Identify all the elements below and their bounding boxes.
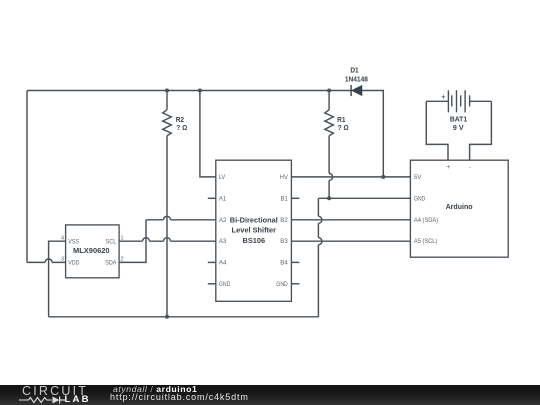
svg-text:D1: D1 xyxy=(350,66,358,74)
wire VDD horizontal with hop over VSS drop xyxy=(27,259,66,263)
logo LAB schematic line xyxy=(0,395,95,405)
wire B3 to A5 SCL xyxy=(291,240,410,242)
svg-text:MLX90620: MLX90620 xyxy=(73,246,110,255)
resistor R1 xyxy=(325,91,334,199)
label Arduino pins xyxy=(414,175,438,245)
node junction R2 top xyxy=(165,89,169,93)
logo LAB text xyxy=(65,394,91,405)
svg-text:SDA: SDA xyxy=(105,261,116,267)
wire SCL to A3 with hops xyxy=(119,238,216,241)
svg-text:B4: B4 xyxy=(280,260,288,266)
wire GND riser right xyxy=(318,198,322,316)
svg-text:3: 3 xyxy=(61,257,64,263)
wire LV to top rail xyxy=(200,91,216,177)
pin GND right stub xyxy=(291,283,299,285)
wire SDA up to A2 xyxy=(119,220,146,263)
label BS106 left pins xyxy=(219,175,231,288)
pin B1 stub xyxy=(291,197,299,199)
logo diode xyxy=(53,397,60,404)
svg-text:R2: R2 xyxy=(176,116,184,124)
wire battery positive to Arduino xyxy=(426,101,448,160)
battery BAT1 xyxy=(426,90,491,112)
svg-text:A1: A1 xyxy=(219,196,227,202)
node junction diode on 5V wire xyxy=(381,175,385,179)
IC level shifter BS106 box xyxy=(216,160,292,301)
IC MLX90620 box xyxy=(66,225,120,278)
diode D1 xyxy=(351,85,362,96)
wire top rail 5V net xyxy=(27,90,351,92)
svg-text:? Ω: ? Ω xyxy=(176,124,187,132)
pin 4 VSS stub xyxy=(61,236,64,242)
label R1 value xyxy=(337,116,349,132)
svg-text:R1: R1 xyxy=(337,116,345,124)
svg-text:2: 2 xyxy=(121,257,124,263)
label BAT1 xyxy=(450,116,467,132)
pin 3 VDD stub xyxy=(61,257,64,263)
pin B4 stub xyxy=(291,261,299,263)
svg-text:SCL: SCL xyxy=(106,239,118,245)
label MLX90620 name xyxy=(73,246,110,255)
label BS106 right pins xyxy=(276,175,288,288)
svg-text:A3: A3 xyxy=(219,239,227,245)
svg-text:B1: B1 xyxy=(281,196,289,202)
pin GND left stub xyxy=(208,283,216,285)
svg-text:GND: GND xyxy=(276,282,288,288)
pin 2 SDA stub xyxy=(121,257,124,263)
label R2 value xyxy=(176,116,188,132)
svg-text:? Ω: ? Ω xyxy=(338,124,349,132)
pin A4 stub xyxy=(208,261,216,263)
footer url line xyxy=(110,392,249,402)
wire A2 horizontal with hop over R2 xyxy=(146,216,216,219)
pin A1 stub xyxy=(208,197,216,199)
svg-text:1N4148: 1N4148 xyxy=(345,76,368,84)
node junction LV on top rail xyxy=(198,89,202,93)
svg-text:B3: B3 xyxy=(280,239,288,245)
node junction R2 bottom on GND rail xyxy=(165,315,169,319)
svg-text:1: 1 xyxy=(121,236,124,242)
wire B2 to A4 SDA xyxy=(291,219,410,221)
svg-text:LV: LV xyxy=(219,175,225,181)
wire bottom GND rail xyxy=(49,316,319,318)
svg-text:B2: B2 xyxy=(280,218,288,224)
svg-text:Arduino: Arduino xyxy=(446,202,473,211)
label BS106 name xyxy=(230,215,278,245)
svg-text:4: 4 xyxy=(61,236,64,242)
resistor R2 xyxy=(163,91,172,317)
svg-text:GND: GND xyxy=(414,196,426,202)
pin 1 SCL stub xyxy=(121,236,124,242)
svg-text:A4 (SDA): A4 (SDA) xyxy=(414,218,438,224)
wire VSS to bottom rail xyxy=(49,241,66,317)
wire diode anode to 5V line xyxy=(362,91,383,177)
svg-text:A5 (SCL): A5 (SCL) xyxy=(414,239,438,245)
wire HV to Arduino 5V xyxy=(291,176,410,178)
svg-text:+: + xyxy=(441,92,446,101)
svg-text:9 V: 9 V xyxy=(453,124,464,132)
wire GND horizontal to Arduino xyxy=(318,197,410,199)
svg-text:VDD: VDD xyxy=(68,261,80,267)
footer CircuitLab bar xyxy=(0,385,540,405)
svg-text:BAT1: BAT1 xyxy=(450,116,467,124)
label Arduino name xyxy=(446,202,473,211)
label D1 xyxy=(345,66,368,83)
svg-text:GND: GND xyxy=(219,282,231,288)
label Arduino battery terminals xyxy=(446,164,470,171)
node junction R1 top on rail xyxy=(327,89,331,93)
logo resistor zigzag xyxy=(19,398,52,403)
svg-text:5V: 5V xyxy=(414,175,422,181)
svg-text:A4: A4 xyxy=(219,260,227,266)
svg-text:BS106: BS106 xyxy=(243,236,266,245)
svg-text:-: - xyxy=(469,164,471,171)
label MLX90620 pins xyxy=(68,239,117,266)
svg-text:VSS: VSS xyxy=(68,239,79,245)
svg-text:A2: A2 xyxy=(219,218,227,224)
node junction R1 bottom on GND xyxy=(327,196,331,200)
svg-text:Bi-Directional: Bi-Directional xyxy=(230,215,278,224)
logo CIRCUIT text xyxy=(22,384,88,398)
IC Arduino box xyxy=(410,160,508,257)
wire battery negative to Arduino xyxy=(470,101,492,160)
footer author line xyxy=(113,384,197,394)
wire left rail down to VDD xyxy=(26,91,28,263)
svg-text:HV: HV xyxy=(280,175,288,181)
svg-text:+: + xyxy=(446,164,450,171)
svg-text:Level Shifter: Level Shifter xyxy=(232,226,277,235)
